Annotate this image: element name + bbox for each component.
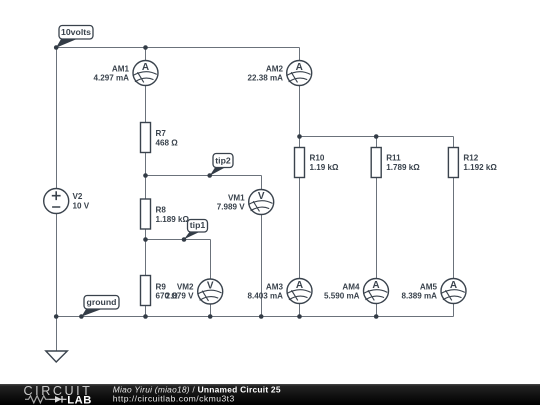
node VM1 bottom junction [259, 314, 264, 319]
wire tip2 rail [146, 175, 262, 177]
svg-text:8.389 mA: 8.389 mA [401, 292, 437, 301]
svg-text:22.38 mA: 22.38 mA [247, 73, 283, 82]
resistor R10 1.19 kOhm [295, 148, 340, 178]
svg-text:1.189 kΩ: 1.189 kΩ [156, 215, 190, 224]
svg-text:4.297 mA: 4.297 mA [93, 73, 129, 82]
node tip1 flag attach node [182, 237, 187, 242]
wire R10 top stem [299, 137, 301, 148]
svg-text:5.590 mA: 5.590 mA [324, 292, 360, 301]
wire R10 bottom to AM3 top [299, 178, 301, 279]
wire R7 bottom to tip2 node [145, 153, 147, 176]
svg-text:AM4: AM4 [342, 282, 360, 291]
wire V2 bottom to bottom rail [56, 214, 58, 317]
node 10volts corner node [54, 45, 59, 50]
svg-text:10 V: 10 V [73, 202, 90, 211]
wire VM2 top stem [210, 240, 212, 279]
ammeter AM5 [401, 279, 466, 304]
wire AM2 top stem [299, 48, 301, 61]
node bottom-left corner node [54, 314, 59, 319]
ammeter AM2 [247, 61, 311, 86]
wire left column from 10volts node to V2 top [56, 48, 58, 189]
node tip1 junction at R8/R9 [143, 237, 148, 242]
svg-text:7.989 V: 7.989 V [217, 202, 246, 211]
svg-text:V2: V2 [73, 192, 83, 201]
node AM4 bottom junction [374, 314, 379, 319]
svg-text:R9: R9 [156, 282, 167, 291]
wire R12 top stem [453, 137, 455, 148]
wire R12 bottom to AM5 top [453, 178, 455, 279]
wire R9 bottom to bottom rail [145, 306, 147, 317]
svg-text:R11: R11 [386, 154, 401, 163]
node tip2 junction at R7/R8 [143, 173, 148, 178]
footer bar [0, 384, 540, 405]
wire AM1 bottom to R7 top [145, 86, 147, 123]
svg-text:LAB: LAB [67, 394, 92, 405]
node AM3 bottom junction [297, 314, 302, 319]
svg-text:1.192 kΩ: 1.192 kΩ [463, 163, 497, 172]
svg-text:AM2: AM2 [266, 64, 284, 73]
node AM1 top junction [143, 45, 148, 50]
voltage source V2 10 V [44, 189, 90, 214]
wire ground stem [56, 317, 58, 352]
resistor R12 1.192 kOhm [448, 148, 497, 178]
node R10 top junction [297, 134, 302, 139]
wire AM3 bottom to bottom rail [299, 304, 301, 317]
wire AM2 bottom to rail C [299, 86, 301, 137]
wire R11 top stem [376, 137, 378, 148]
wire tip2 node to R8 top [145, 176, 147, 200]
wire R8 bottom to tip1 node [145, 229, 147, 240]
svg-text:ground: ground [87, 297, 117, 307]
svg-text:VM2: VM2 [177, 282, 194, 291]
wire R11 bottom to AM4 top [376, 178, 378, 279]
svg-text:1.19 kΩ: 1.19 kΩ [310, 163, 340, 172]
wire top rail [57, 47, 300, 49]
svg-text:tip1: tip1 [190, 220, 206, 230]
svg-text:R7: R7 [156, 129, 167, 138]
svg-text:8.403 mA: 8.403 mA [247, 292, 283, 301]
resistor R9 670 Ohm [141, 276, 179, 306]
node R9 bottom junction [143, 314, 148, 319]
svg-text:468 Ω: 468 Ω [156, 138, 179, 147]
resistor R8 1.189 kOhm [141, 199, 190, 229]
wire VM1 bottom to bottom rail [261, 215, 263, 317]
ground symbol [46, 351, 68, 362]
ammeter AM3 [247, 279, 312, 304]
svg-text:2.879 V: 2.879 V [166, 292, 195, 301]
net flag tip1 [184, 220, 208, 240]
svg-text:VM1: VM1 [228, 193, 245, 202]
voltmeter VM2 [166, 279, 223, 304]
net flag tip2 [210, 154, 233, 176]
ammeter AM4 [324, 279, 389, 304]
svg-text:AM1: AM1 [112, 64, 130, 73]
node tip2 flag attach node [207, 173, 212, 178]
wire tip1 rail [146, 239, 211, 241]
node R11 top junction [374, 134, 379, 139]
voltmeter VM1 [217, 190, 274, 215]
svg-text:AM5: AM5 [420, 282, 438, 291]
svg-text:R8: R8 [156, 205, 167, 214]
resistor R7 468 Ohm [141, 123, 179, 153]
wire AM5 bottom to bottom rail [453, 304, 455, 317]
svg-text:1.789 kΩ: 1.789 kΩ [386, 163, 420, 172]
net flag ground [81, 296, 119, 317]
wire tip1 node to R9 top [145, 240, 147, 276]
wire bottom rail [57, 316, 454, 318]
ammeter AM1 [93, 61, 158, 86]
net flag 10volts [56, 26, 93, 48]
svg-text:http://circuitlab.com/ckmu3t3: http://circuitlab.com/ckmu3t3 [113, 393, 235, 403]
node VM2 bottom junction [208, 314, 213, 319]
svg-text:R10: R10 [310, 154, 325, 163]
svg-text:tip2: tip2 [215, 156, 231, 166]
footer caption [113, 384, 281, 403]
wire AM4 bottom to bottom rail [376, 304, 378, 317]
CircuitLab logo [24, 384, 93, 405]
node ground flag attach node [79, 314, 84, 319]
svg-text:AM3: AM3 [266, 282, 284, 291]
wire rail C [300, 136, 454, 138]
wire AM1 top stem [145, 48, 147, 61]
svg-text:R12: R12 [463, 154, 478, 163]
resistor R11 1.789 kOhm [371, 148, 420, 178]
svg-text:10volts: 10volts [61, 27, 91, 37]
wire VM1 top stem [261, 176, 263, 190]
wire VM2 bottom to bottom rail [210, 304, 212, 317]
